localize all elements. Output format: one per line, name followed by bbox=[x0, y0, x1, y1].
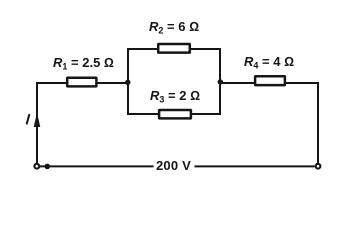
wire: parallel box left vertical bbox=[127, 49, 129, 114]
wire: parallel bottom rail bbox=[127, 113, 221, 115]
resistor R4 bbox=[255, 76, 285, 85]
wire: right vertical down to terminal bbox=[317, 82, 319, 163]
wire: bottom run left of 200V label bbox=[40, 165, 154, 167]
node A (junction dot left of parallel box) bbox=[125, 80, 130, 85]
svg-text:R3 = 2 Ω: R3 = 2 Ω bbox=[150, 88, 200, 105]
wire: left vertical down from top-left corner bbox=[36, 82, 38, 163]
label I bbox=[27, 115, 29, 124]
wire: R1 to node A bbox=[97, 82, 128, 84]
wire: bottom run right of 200V label bbox=[195, 165, 315, 167]
current arrowhead I (pointing up) bbox=[34, 113, 41, 128]
terminal: bottom-right open circle bbox=[316, 164, 321, 169]
wire: parallel box right vertical bbox=[219, 49, 221, 114]
resistor R2 bbox=[158, 44, 190, 53]
svg-text:R2 = 6 Ω: R2 = 6 Ω bbox=[149, 19, 199, 36]
wire: main top run left segment (corner to R1) bbox=[36, 82, 67, 84]
resistor R1 bbox=[67, 78, 96, 87]
wire: node B to R4 bbox=[220, 82, 255, 84]
node B (junction dot right of parallel box) bbox=[218, 79, 223, 84]
svg-text:R4 = 4 Ω: R4 = 4 Ω bbox=[244, 54, 294, 71]
resistor R3 bbox=[159, 110, 191, 118]
terminal: bottom-left open circle bbox=[34, 164, 39, 169]
wire: parallel top rail bbox=[127, 48, 221, 50]
junction dot right of left terminal bbox=[45, 164, 51, 170]
svg-text:200 V: 200 V bbox=[156, 158, 191, 173]
wire: R4 to top-right corner bbox=[286, 82, 318, 84]
svg-text:R1 = 2.5 Ω: R1 = 2.5 Ω bbox=[53, 55, 114, 72]
